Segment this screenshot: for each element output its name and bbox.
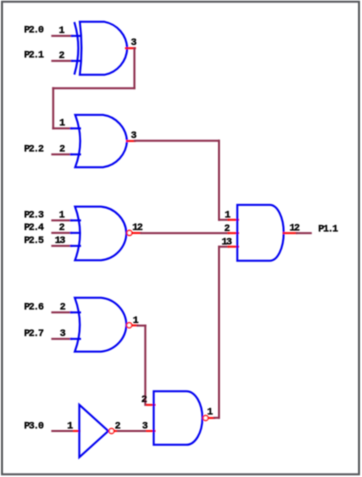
svg-text:P2.4: P2.4 <box>24 223 44 234</box>
nor U4 output stub pin1 <box>132 324 138 326</box>
or U2 output stub pin3 <box>127 140 135 142</box>
wire into U2 pin1 <box>53 127 71 129</box>
wire U1 out down to U2 pin1 <box>52 88 54 128</box>
wire U6 out to U7 pin13 <box>219 246 229 248</box>
nor gate U3 input stub pin1 <box>71 219 80 221</box>
nor gate U4 output bubble <box>127 323 132 328</box>
wire P2.6 to U4 pin2 <box>52 311 71 313</box>
wire to U7 pin1 <box>219 219 229 221</box>
wire U1 out left <box>53 87 134 89</box>
nor U3 output stub pin12 <box>132 232 141 234</box>
xor gate U1 extra input arc <box>75 23 79 74</box>
wire U6 out up to U7 pin13 <box>218 247 220 418</box>
inverter U5 output stub <box>115 430 118 432</box>
and gate U7 input stub pin13 <box>229 246 239 248</box>
and U7 output stub pin12 <box>284 232 297 234</box>
nor gate U4 input stub pin3 <box>71 338 80 340</box>
wire P2.5 to U3 pin13 <box>52 245 71 247</box>
svg-text:P2.2: P2.2 <box>24 145 44 156</box>
wire U4 out right <box>138 325 146 327</box>
wire P2.3 to U3 pin1 <box>52 219 71 221</box>
wire U6 out right <box>214 417 219 419</box>
nor gate U4 input stub pin2 <box>71 311 80 313</box>
xor U1 output stub pin3 <box>126 47 135 49</box>
wire U5 out to U6 pin3 <box>118 430 147 432</box>
or gate U2 body <box>75 115 127 167</box>
nor gate U3 body <box>75 207 126 261</box>
wire P2.0 to U1 pin1 <box>52 35 72 37</box>
svg-text:13: 13 <box>55 236 66 247</box>
nand U6 input stub pin2 <box>147 404 155 406</box>
wire U7 out to P1.1 <box>297 232 311 234</box>
svg-text:P2.7: P2.7 <box>24 329 44 340</box>
xor gate U1 input stub pin2 <box>72 60 80 62</box>
svg-text:P3.0: P3.0 <box>24 421 44 432</box>
wire U4 out down to U6 pin2 <box>144 326 146 405</box>
nor gate U3 output bubble <box>127 230 132 235</box>
and gate U7 body <box>237 205 283 261</box>
nand U6 output stub pin1 <box>209 417 215 419</box>
svg-text:P2.0: P2.0 <box>24 26 44 37</box>
svg-text:P1.1: P1.1 <box>318 224 338 235</box>
nor gate U3 input stub pin2 <box>71 232 80 234</box>
xor gate U1 input stub pin1 <box>72 35 80 37</box>
or gate U2 input stub pin2 <box>71 153 80 155</box>
svg-text:P2.5: P2.5 <box>24 236 44 247</box>
svg-text:P2.3: P2.3 <box>24 211 44 222</box>
xor gate U1 body <box>80 22 127 75</box>
wire P2.7 to U4 pin3 <box>52 338 71 340</box>
wire U2 out down to U7 pin1 <box>218 141 220 220</box>
wire U3 out to U7 pin2 <box>141 232 229 234</box>
nor gate U4 body <box>75 298 127 352</box>
inverter U5 input stub red <box>74 430 79 432</box>
nand U6 input stub pin3 <box>147 430 155 432</box>
nor gate U3 input stub pin13 <box>71 245 80 247</box>
inverter U5 output bubble <box>109 429 114 434</box>
or gate U2 input stub pin1 <box>71 127 80 129</box>
wire P2.2 to U2 pin2 <box>52 153 71 155</box>
svg-text:P2.1: P2.1 <box>24 51 44 62</box>
wire P2.1 to U1 pin2 <box>52 60 72 62</box>
svg-text:P2.6: P2.6 <box>24 303 44 314</box>
and gate U7 input stub pin2 <box>229 232 239 234</box>
wire P3.0 to U5 pin1 <box>52 430 74 432</box>
inverter U5 triangle <box>79 405 108 458</box>
wire P2.4 to U3 pin2 <box>52 232 71 234</box>
nand gate U6 output bubble <box>203 416 208 421</box>
wire U1 out down <box>133 48 135 88</box>
wire U2 out right <box>135 140 219 142</box>
nand gate U6 body <box>154 391 203 445</box>
and gate U7 input stub pin1 <box>229 219 239 221</box>
